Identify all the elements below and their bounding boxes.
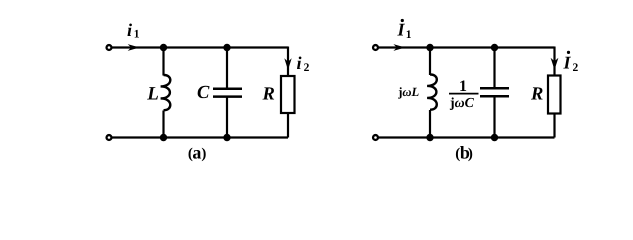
svg-text:jωC: jωC bbox=[449, 95, 475, 110]
svg-text:I: I bbox=[563, 52, 572, 72]
svg-text:): ) bbox=[201, 146, 206, 162]
svg-text:): ) bbox=[468, 146, 473, 162]
svg-text:2: 2 bbox=[304, 62, 310, 74]
svg-text:1: 1 bbox=[406, 29, 412, 41]
svg-text:R: R bbox=[530, 85, 543, 105]
svg-text:R: R bbox=[262, 84, 275, 104]
svg-text:i: i bbox=[297, 53, 302, 73]
svg-text:1: 1 bbox=[459, 78, 467, 95]
svg-text:1: 1 bbox=[134, 28, 140, 40]
svg-text:L: L bbox=[146, 84, 159, 105]
svg-text:C: C bbox=[197, 83, 210, 103]
svg-text:I: I bbox=[397, 19, 406, 39]
svg-text:a: a bbox=[192, 143, 201, 163]
svg-text:i: i bbox=[127, 20, 132, 40]
svg-text:jωL: jωL bbox=[397, 85, 419, 99]
svg-text:2: 2 bbox=[573, 62, 579, 74]
